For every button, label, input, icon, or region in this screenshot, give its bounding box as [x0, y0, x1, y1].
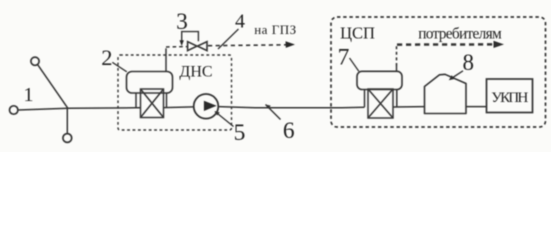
wire: separator right leg — [166, 93, 168, 108]
svg-text:2: 2 — [101, 45, 112, 70]
crossed box under separator S2 — [368, 89, 393, 118]
svg-text:ЦСП: ЦСП — [340, 24, 375, 43]
DNS dashed enclosure — [118, 55, 232, 130]
wire: pipe from tank to UKPN — [466, 106, 487, 108]
node: well symbol (left flowline inlet circle) — [10, 106, 18, 114]
node: well symbol (lower circle) — [63, 134, 72, 143]
wire: gas riser from separator S1 top — [165, 48, 167, 71]
wire: dashed gas riser segment — [397, 45, 399, 66]
svg-text:8: 8 — [463, 50, 475, 75]
wire: pipe from crossed box to pump — [164, 106, 194, 109]
svg-text:1: 1 — [24, 84, 34, 106]
wire: dashed gas line to valve — [166, 46, 187, 48]
wire: gas riser from separator S2 top — [396, 66, 398, 71]
wire: leader from label 8 to tank roof — [451, 71, 464, 79]
wire: leader from pipeline to label 6 — [266, 105, 281, 120]
wire: trunk pipeline DNS to CSP (pos.6) — [218, 107, 364, 108]
svg-text:6: 6 — [283, 118, 295, 144]
svg-text:7: 7 — [338, 44, 350, 70]
CSP dashed enclosure — [331, 17, 546, 127]
svg-text:3: 3 — [176, 9, 188, 35]
svg-text:4: 4 — [235, 11, 245, 33]
wire: bold dashed gas line to consumers with arrow — [397, 43, 495, 46]
separator S1 vessel (pos.2) — [127, 72, 173, 94]
tank T1 (pos.8) pentagon — [425, 74, 467, 113]
svg-text:ДНС: ДНС — [179, 63, 212, 80]
wire: main gathering pipeline from wells to DNS — [18, 108, 140, 110]
wire: pipe from crossed box 2 to tank — [393, 106, 425, 108]
wire: leader from pump to label 5 — [215, 112, 234, 127]
wire: slanted flowline from upper well to junction — [38, 65, 68, 109]
wire: leader from dashed line up to label 4 — [218, 29, 239, 49]
pump P1 (pos.5) — [194, 94, 219, 119]
wire: leader from label 7 to vessel — [350, 58, 359, 71]
valve actuator bracket — [182, 32, 199, 44]
svg-text:на ГПЗ: на ГПЗ — [254, 22, 296, 37]
valve V1 (pos.3) bowtie — [188, 42, 207, 51]
wire: leader from label 2 to vessel corner — [112, 62, 127, 72]
svg-text:5: 5 — [234, 120, 246, 146]
label 3: valve, leader arrowhead — [180, 40, 184, 46]
wire: separator S2 left leg — [364, 90, 366, 108]
svg-text:потребителям: потребителям — [418, 25, 502, 42]
wire: drop line from junction to lower well — [66, 108, 68, 133]
wire: dashed gas line to GPZ with arrow (pos.4) — [208, 44, 288, 47]
UKPN treatment unit block — [487, 79, 533, 113]
svg-text:УКПН: УКПН — [491, 89, 528, 106]
wire: separator left leg — [135, 93, 137, 108]
wire: separator S2 right leg — [396, 90, 398, 108]
crossed box under separator S1 — [141, 89, 164, 118]
separator S2 vessel (pos.7) — [357, 71, 402, 89]
node: well symbol (upper-left circle) — [31, 57, 39, 65]
